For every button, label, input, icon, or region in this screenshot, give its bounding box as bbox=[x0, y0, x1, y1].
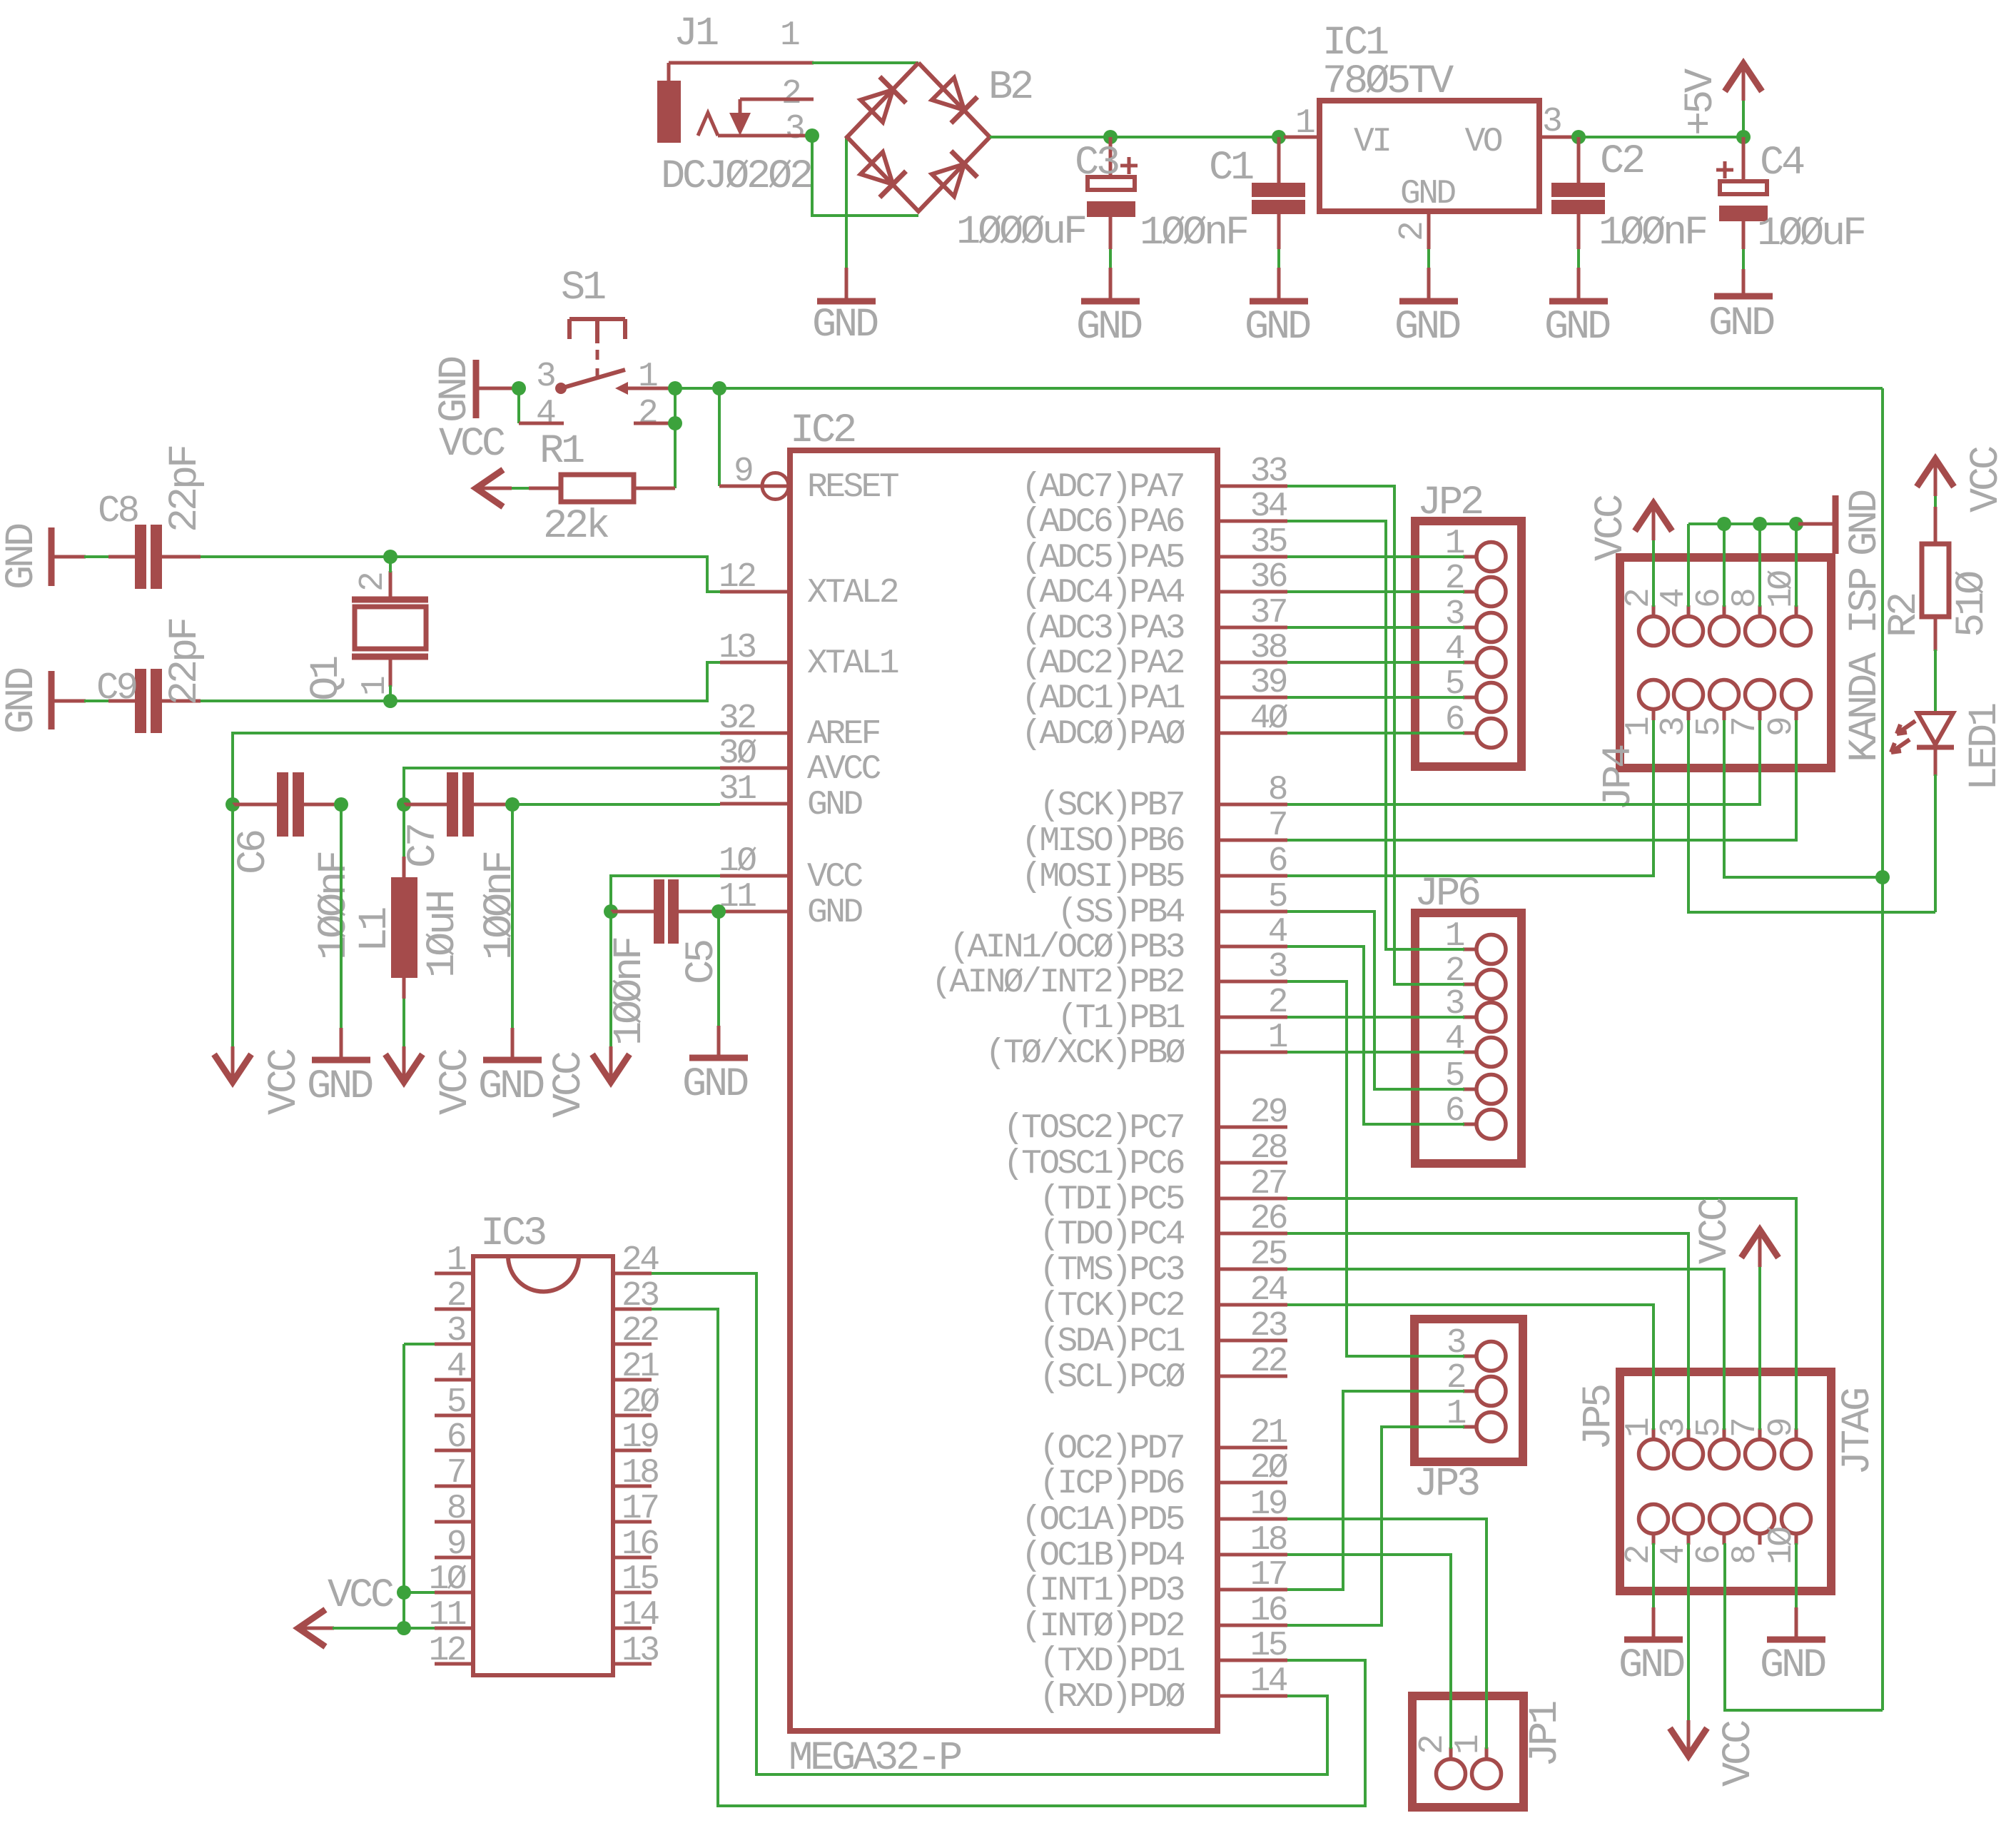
supply symbol VCC down arrow below JP5 pin4 bbox=[1670, 1728, 1707, 1756]
junction IC3 pin11 bbox=[397, 1621, 411, 1635]
svg-text:24: 24 bbox=[1250, 1271, 1287, 1310]
wire main rail bridge to C3 junction bbox=[990, 136, 1110, 138]
wire rail C2 to C4 junction bbox=[1579, 136, 1743, 138]
wire S1 pin3 to pin4 net bbox=[517, 388, 520, 423]
wire IC2 PA to JP2 pin 1 bbox=[1287, 555, 1464, 558]
svg-text:VCC: VCC bbox=[1693, 1198, 1738, 1264]
JP4 pin 1 red stub bbox=[1652, 709, 1656, 720]
IC2 pin 39 (ADC1)PA1 lead bbox=[1217, 696, 1287, 700]
JP5 pin 1 red stub bbox=[1652, 1428, 1656, 1440]
JP5 pin 8 red stub bbox=[1758, 1533, 1762, 1545]
JP2 pin 5 circle bbox=[1476, 683, 1506, 712]
JP5 pin 7 red stub bbox=[1758, 1428, 1762, 1440]
wire TCK PC2 to JP5 pin1 bbox=[1287, 1305, 1653, 1430]
IC2 pin 21 (OC2)PD7 lead bbox=[1217, 1446, 1287, 1450]
IC3 pin 4 lead bbox=[435, 1378, 473, 1382]
wire R1 left net segment bbox=[509, 487, 529, 490]
svg-text:(AINØ/INT2)PB2: (AINØ/INT2)PB2 bbox=[931, 964, 1184, 1002]
JP3 pin 3 red lead bbox=[1463, 1355, 1476, 1358]
svg-text:38: 38 bbox=[1250, 629, 1287, 667]
svg-text:3: 3 bbox=[1268, 948, 1287, 986]
svg-text:8: 8 bbox=[447, 1490, 465, 1528]
svg-text:C4: C4 bbox=[1760, 141, 1804, 186]
svg-text:22k: 22k bbox=[543, 504, 609, 550]
junction C5 right at IC2 pin11 bbox=[711, 904, 726, 919]
svg-text:1: 1 bbox=[447, 1241, 466, 1280]
JP6 pin 3 circle bbox=[1476, 1003, 1506, 1032]
JP4 pin 7 circle bbox=[1746, 680, 1775, 709]
JP5 pin 4 red stub bbox=[1687, 1533, 1691, 1545]
svg-text:JP2: JP2 bbox=[1417, 480, 1482, 526]
svg-text:3Ø: 3Ø bbox=[719, 734, 756, 773]
IC3 pin 21 lead bbox=[613, 1378, 652, 1382]
wire VCC net pin10 to C5 bbox=[611, 876, 720, 911]
svg-text:(MISO)PB6: (MISO)PB6 bbox=[1021, 822, 1184, 861]
JP5 pin 10 circle bbox=[1782, 1505, 1811, 1534]
svg-text:VCC: VCC bbox=[807, 858, 862, 897]
ground symbol below IC1 bbox=[1427, 268, 1431, 299]
svg-text:VI: VI bbox=[1354, 123, 1389, 161]
JP2 pin 3 red lead bbox=[1463, 626, 1476, 630]
wire C7 left down to L1 bbox=[402, 804, 405, 857]
JP4 pin 4 red stub bbox=[1687, 605, 1691, 617]
JP5 pin 5 red stub bbox=[1723, 1428, 1726, 1440]
ground symbol left of S1 rotated bbox=[479, 387, 521, 390]
wire IC2 PA to JP2 pin 5 bbox=[1287, 696, 1464, 699]
svg-text:1ØØnF: 1ØØnF bbox=[1140, 211, 1247, 256]
svg-text:6: 6 bbox=[1691, 1546, 1729, 1565]
JP5 pin 2 circle bbox=[1639, 1505, 1668, 1534]
svg-text:34: 34 bbox=[1250, 488, 1287, 526]
wire PD5 OC1A to JP1 pin1 bbox=[1287, 1519, 1486, 1749]
wire PB3 to JP6 pin6 bbox=[1287, 946, 1464, 1124]
JP4 pin 3 red stub bbox=[1687, 709, 1691, 720]
svg-text:GND: GND bbox=[307, 1064, 373, 1110]
supply symbol VCC arrow above R2 bbox=[1917, 459, 1954, 487]
resistor R1 22k bbox=[529, 475, 675, 502]
svg-text:1ØØnF: 1ØØnF bbox=[477, 852, 523, 960]
svg-text:2Ø: 2Ø bbox=[1250, 1449, 1288, 1488]
JP4 pin 1 circle bbox=[1639, 680, 1668, 709]
svg-text:GND: GND bbox=[1708, 301, 1774, 347]
junction S1 pin1 bbox=[668, 381, 682, 395]
svg-text:1ØuH: 1ØuH bbox=[420, 892, 466, 978]
wire VCC to R2 bbox=[1934, 496, 1937, 508]
svg-text:21: 21 bbox=[1250, 1414, 1287, 1453]
svg-text:GND: GND bbox=[1619, 1643, 1684, 1689]
S1 pin4 red lead bbox=[519, 422, 564, 425]
JP2 pin 5 red lead bbox=[1463, 696, 1476, 700]
capacitor C4 100uF polarized bbox=[1716, 137, 1768, 249]
IC2 pin 9 RESET lead bbox=[762, 485, 790, 488]
supply symbol VCC arrow above JP4 pin2 bbox=[1635, 503, 1672, 531]
svg-text:16: 16 bbox=[1250, 1592, 1287, 1630]
IC3 pin 1 lead bbox=[435, 1272, 473, 1276]
JP6 pin 1 circle bbox=[1476, 935, 1506, 964]
IC3 pin 7 lead bbox=[435, 1485, 473, 1488]
IC2 pin 38 (ADC2)PA2 lead bbox=[1217, 661, 1287, 665]
svg-text:3: 3 bbox=[447, 1312, 465, 1350]
IC3 pin 20 lead bbox=[613, 1414, 652, 1418]
svg-text:JTAG: JTAG bbox=[1835, 1389, 1881, 1475]
svg-text:(INTØ)PD2: (INTØ)PD2 bbox=[1021, 1607, 1184, 1646]
IC2 pin 16 (INT0)PD2 lead bbox=[1217, 1624, 1287, 1627]
svg-text:(ADC6)PA6: (ADC6)PA6 bbox=[1021, 503, 1184, 542]
svg-text:5: 5 bbox=[447, 1383, 465, 1422]
svg-text:VCC: VCC bbox=[328, 1573, 393, 1619]
svg-text:VCC: VCC bbox=[433, 1049, 479, 1115]
svg-text:16: 16 bbox=[622, 1525, 658, 1564]
JP2 pin 6 circle bbox=[1476, 719, 1506, 748]
supply symbol VCC down arrow bbox=[214, 1054, 251, 1082]
svg-text:IC3: IC3 bbox=[480, 1211, 545, 1257]
wire IC3 pin23 to IC2 pin15 TXD bbox=[652, 1309, 1365, 1806]
wire pin1 to pin2 net bbox=[674, 388, 677, 423]
IC2 pin 10 VCC lead bbox=[720, 874, 790, 878]
IC2 pin 6 (MOSI)PB5 lead bbox=[1217, 874, 1287, 878]
svg-text:VO: VO bbox=[1465, 123, 1502, 161]
ground symbol below C4 bbox=[1742, 269, 1746, 295]
wire PA7 to JP6 pin2 bbox=[1287, 486, 1464, 984]
svg-text:GND: GND bbox=[432, 357, 478, 423]
svg-text:51Ø: 51Ø bbox=[1950, 571, 1995, 637]
JP5 pin 3 red stub bbox=[1687, 1428, 1691, 1440]
capacitor C9 22pF bbox=[108, 669, 201, 733]
JP1 pin2 red stub bbox=[1449, 1747, 1453, 1759]
IC2 RESET inverter bubble bbox=[762, 473, 789, 500]
wire PB1 to JP6 pin3 bbox=[1287, 1016, 1464, 1019]
wire GND row from C7 to IC2 pin31 bbox=[512, 803, 720, 806]
svg-text:C9: C9 bbox=[96, 667, 136, 709]
svg-text:12: 12 bbox=[429, 1632, 465, 1670]
wire C9 to crystal junction bbox=[201, 700, 390, 702]
svg-text:(ADCØ)PAØ: (ADCØ)PAØ bbox=[1021, 715, 1185, 754]
wire C9 left ground net segment bbox=[84, 700, 108, 702]
wire JP5 pin4 to VCC bbox=[1687, 1543, 1690, 1723]
svg-text:(OC1A)PD5: (OC1A)PD5 bbox=[1021, 1501, 1184, 1540]
JP5 pin 5 circle bbox=[1710, 1440, 1739, 1469]
JP5 pin 7 circle bbox=[1746, 1440, 1775, 1469]
ground symbol below C1 bbox=[1277, 268, 1281, 299]
IC2 pin 20 (ICP)PD6 lead bbox=[1217, 1481, 1287, 1485]
JP5 pin 2 red stub bbox=[1652, 1533, 1656, 1545]
JP5 pin 3 circle bbox=[1674, 1440, 1703, 1469]
wire C5 left down to VCC bbox=[609, 911, 612, 1049]
svg-text:JP5: JP5 bbox=[1576, 1385, 1622, 1450]
svg-text:2: 2 bbox=[1268, 984, 1287, 1022]
svg-text:(TDO)PC4: (TDO)PC4 bbox=[1039, 1216, 1184, 1254]
junction at C1 bbox=[1272, 130, 1286, 144]
JP1 pin 1 circle bbox=[1472, 1759, 1501, 1789]
wire VCC to JP4 pin2 bbox=[1652, 540, 1655, 607]
svg-text:22pF: 22pF bbox=[163, 619, 208, 705]
IC2 pin 30 AVCC lead bbox=[720, 767, 790, 770]
svg-text:VCC: VCC bbox=[1964, 447, 2010, 512]
IC2 pin 32 AREF lead bbox=[720, 732, 790, 735]
wire AREF net to C6 bbox=[233, 733, 720, 804]
svg-text:18: 18 bbox=[1250, 1521, 1287, 1560]
wire JP4 pin3 to LED1 cathode bbox=[1688, 720, 1935, 912]
ground symbol below bridge bbox=[845, 268, 849, 299]
supply symbol VCC arrow left of R1 bbox=[476, 470, 503, 507]
svg-text:39: 39 bbox=[1250, 664, 1287, 702]
svg-text:(OC2)PD7: (OC2)PD7 bbox=[1039, 1430, 1183, 1468]
wire RESET vertical right side bbox=[1881, 388, 1884, 1710]
resistor R2 510 bbox=[1922, 507, 1949, 651]
svg-text:27: 27 bbox=[1250, 1165, 1286, 1203]
ground symbol below C6 bbox=[340, 1028, 343, 1058]
JP4 pin 8 circle bbox=[1746, 617, 1775, 646]
svg-text:19: 19 bbox=[622, 1418, 658, 1457]
wire J1 pin1 red lead bbox=[669, 61, 814, 65]
JP4 pin 4 circle bbox=[1674, 617, 1703, 646]
IC2 pin 2 (T1)PB1 lead bbox=[1217, 1016, 1287, 1019]
wire VCC to JP5 pin7 bbox=[1758, 1267, 1761, 1430]
svg-text:2: 2 bbox=[1414, 1736, 1452, 1754]
wire down to R1 right lead bbox=[674, 423, 677, 488]
svg-text:J1: J1 bbox=[674, 11, 718, 57]
svg-text:4: 4 bbox=[447, 1348, 466, 1386]
junction crystal pin1 bbox=[383, 694, 397, 708]
svg-text:(AIN1/OCØ)PB3: (AIN1/OCØ)PB3 bbox=[949, 929, 1184, 967]
wire C8 to crystal junction bbox=[201, 555, 390, 558]
svg-text:(ADC2)PA2: (ADC2)PA2 bbox=[1021, 645, 1184, 683]
JP1 pin1 red stub bbox=[1485, 1747, 1489, 1759]
junction IC3 pin10 bbox=[397, 1585, 411, 1600]
svg-text:9: 9 bbox=[447, 1525, 465, 1564]
svg-text:IC2: IC2 bbox=[790, 408, 855, 454]
svg-text:Q1: Q1 bbox=[304, 657, 350, 701]
JP4 pin 3 circle bbox=[1674, 680, 1703, 709]
IC2 pin 29 (TOSC2)PC7 lead bbox=[1217, 1126, 1287, 1129]
IC3 pin 11 lead bbox=[435, 1627, 473, 1630]
JP4 pin 9 circle bbox=[1782, 680, 1811, 709]
supply symbol VCC arrow left of IC3 bbox=[298, 1610, 325, 1647]
wire PA6 to JP6 pin1 bbox=[1287, 521, 1464, 949]
IC3 pin 10 lead bbox=[435, 1591, 473, 1595]
wire TDO PC4 to JP5 pin3 bbox=[1287, 1233, 1688, 1430]
svg-text:(ADC3)PA3: (ADC3)PA3 bbox=[1021, 610, 1184, 648]
svg-text:VCC: VCC bbox=[547, 1052, 592, 1118]
JP6 pin 4 red lead bbox=[1463, 1051, 1476, 1054]
svg-text:GND: GND bbox=[807, 786, 862, 824]
wire PB2 to JP3 pin3 bbox=[1287, 981, 1464, 1356]
svg-text:(TXD)PD1: (TXD)PD1 bbox=[1039, 1642, 1184, 1681]
IC1 pin3 red stub bbox=[1539, 136, 1575, 139]
junction C7 right bbox=[505, 797, 520, 812]
supply symbol VCC down arrow bbox=[592, 1054, 629, 1082]
junction C5 left bbox=[604, 904, 618, 919]
svg-text:XTAL1: XTAL1 bbox=[807, 645, 898, 683]
svg-text:23: 23 bbox=[1250, 1307, 1287, 1345]
svg-text:8: 8 bbox=[1726, 1546, 1765, 1565]
header JP6 box bbox=[1415, 913, 1521, 1163]
svg-text:14: 14 bbox=[622, 1596, 659, 1635]
junction bus pin6 bbox=[1717, 517, 1731, 531]
JP5 pin 10 red stub bbox=[1795, 1533, 1798, 1545]
svg-text:GND: GND bbox=[807, 894, 862, 932]
svg-text:6: 6 bbox=[447, 1418, 465, 1457]
svg-text:2: 2 bbox=[638, 395, 657, 433]
svg-text:1: 1 bbox=[638, 358, 657, 396]
JP5 pin 6 circle bbox=[1710, 1505, 1739, 1534]
junction C7 left bbox=[397, 797, 411, 812]
IC3 pin 5 lead bbox=[435, 1414, 473, 1418]
svg-text:(RXD)PDØ: (RXD)PDØ bbox=[1039, 1678, 1185, 1717]
svg-text:12: 12 bbox=[719, 558, 755, 597]
svg-text:1ØØuF: 1ØØuF bbox=[1757, 211, 1865, 257]
capacitor C2 100nF bbox=[1551, 137, 1605, 249]
svg-text:JP6: JP6 bbox=[1414, 872, 1479, 917]
junction at J1 pin3 bbox=[805, 128, 819, 143]
svg-text:JP4: JP4 bbox=[1596, 745, 1642, 811]
JP3 pin 2 red lead bbox=[1463, 1390, 1476, 1393]
svg-text:29: 29 bbox=[1250, 1094, 1287, 1132]
wire RESET long horizontal to right side bbox=[719, 387, 1883, 390]
wire S1 to RESET junction bbox=[675, 387, 719, 390]
IC2 pin 37 (ADC3)PA3 lead bbox=[1217, 626, 1287, 630]
wire JP4 pin6 up to ground bus bbox=[1723, 524, 1726, 607]
JP4 pin 6 circle bbox=[1710, 617, 1739, 646]
junction at C4 bbox=[1736, 130, 1751, 144]
IC2 pin 12 XTAL2 lead bbox=[720, 590, 790, 594]
svg-text:GND: GND bbox=[0, 668, 45, 734]
ground symbol below C5 bbox=[717, 1026, 721, 1056]
IC2 pin 33 (ADC7)PA7 lead bbox=[1217, 485, 1287, 488]
wire C7 right down to ground bbox=[511, 804, 514, 1028]
wire PD3 INT1 to JP3 pin2 bbox=[1287, 1391, 1464, 1590]
S1 pin1 red lead bbox=[627, 387, 675, 390]
ic IC3 body bbox=[473, 1256, 613, 1675]
wire R2 to LED1 bbox=[1934, 650, 1937, 714]
JP2 pin 1 red lead bbox=[1463, 555, 1476, 559]
JP3 pin 1 red lead bbox=[1463, 1425, 1476, 1429]
IC3 pin 18 lead bbox=[613, 1485, 652, 1488]
IC3 pin 14 lead bbox=[613, 1627, 652, 1630]
IC2 pin 24 (TCK)PC2 lead bbox=[1217, 1303, 1287, 1307]
ground symbol below C3 bbox=[1109, 268, 1113, 299]
JP4 pin 6 red stub bbox=[1723, 605, 1726, 617]
IC2 pin 36 (ADC4)PA4 lead bbox=[1217, 590, 1287, 594]
capacitor C5 100nF bbox=[611, 879, 719, 944]
JP3 pin 2 circle bbox=[1476, 1377, 1506, 1406]
supply symbol +5V arrow bbox=[1725, 64, 1762, 91]
wire JP4 ground bus bbox=[1688, 522, 1800, 525]
wire VCC vertical to pin3 bbox=[402, 1344, 405, 1628]
junction bus pin10 bbox=[1789, 517, 1803, 531]
wire JP5 pin10 to ground bbox=[1795, 1543, 1798, 1607]
svg-text:(INT1)PD3: (INT1)PD3 bbox=[1021, 1572, 1184, 1610]
wire C5 right down to ground bbox=[717, 911, 720, 1026]
IC2 pin 8 (SCK)PB7 lead bbox=[1217, 803, 1287, 807]
wire crystal row to XTAL1 jog bbox=[390, 662, 720, 701]
wire JP4 pin5 to RESET net bbox=[1724, 720, 1883, 877]
svg-text:(ADC7)PA7: (ADC7)PA7 bbox=[1021, 468, 1183, 507]
JP2 pin 4 red lead bbox=[1463, 661, 1476, 665]
IC2 pin 3 (AIN0/INT2)PB2 lead bbox=[1217, 980, 1287, 984]
wire C3 ground net segment bbox=[1109, 249, 1112, 268]
svg-text:4: 4 bbox=[1268, 913, 1287, 951]
IC2 RESET pin red lead bbox=[719, 485, 762, 488]
wire IC2 PA to JP2 pin 3 bbox=[1287, 626, 1464, 629]
svg-text:18: 18 bbox=[622, 1454, 658, 1493]
svg-text:(ICP)PD6: (ICP)PD6 bbox=[1039, 1465, 1183, 1503]
svg-text:VCC: VCC bbox=[1589, 495, 1634, 561]
svg-text:9: 9 bbox=[734, 453, 752, 491]
svg-text:(SDA)PC1: (SDA)PC1 bbox=[1039, 1323, 1184, 1361]
IC2 pin 7 (MISO)PB6 lead bbox=[1217, 839, 1287, 842]
svg-text:(SCK)PB7: (SCK)PB7 bbox=[1039, 787, 1183, 825]
JP6 pin 6 circle bbox=[1476, 1110, 1506, 1139]
JP2 pin 2 circle bbox=[1476, 577, 1506, 607]
IC2 pin 5 (SS)PB4 lead bbox=[1217, 910, 1287, 914]
svg-text:(MOSI)PB5: (MOSI)PB5 bbox=[1021, 858, 1184, 897]
svg-text:3: 3 bbox=[536, 358, 554, 396]
inductor L1 10uH bbox=[391, 857, 417, 999]
JP6 pin 6 red lead bbox=[1463, 1123, 1476, 1126]
wire crystal pin2 stub bbox=[389, 557, 392, 572]
svg-text:(SCL)PCØ: (SCL)PCØ bbox=[1039, 1358, 1185, 1397]
wire IC2 PA to JP2 pin 6 bbox=[1287, 732, 1464, 734]
header JP5 box bbox=[1620, 1372, 1831, 1591]
IC3 pin 2 lead bbox=[435, 1308, 473, 1311]
svg-text:4Ø: 4Ø bbox=[1250, 700, 1288, 738]
IC3 pin 19 lead bbox=[613, 1449, 652, 1453]
JP4 pin 10 circle bbox=[1782, 617, 1811, 646]
junction S1 pin3 bbox=[512, 381, 526, 395]
svg-text:2: 2 bbox=[1394, 223, 1432, 241]
wire junction down and right to bridge bottom bbox=[812, 136, 918, 216]
wire C1 ground net segment bbox=[1277, 249, 1280, 268]
IC2 pin 11 GND lead bbox=[720, 910, 790, 914]
IC2 pin 34 (ADC6)PA6 lead bbox=[1217, 520, 1287, 523]
svg-text:(TOSC2)PC7: (TOSC2)PC7 bbox=[1003, 1109, 1183, 1148]
JP4 pin 2 red stub bbox=[1652, 605, 1656, 617]
svg-text:R2: R2 bbox=[1882, 594, 1928, 637]
IC2 pin 17 (INT1)PD3 lead bbox=[1217, 1588, 1287, 1592]
IC2 pin 26 (TDO)PC4 lead bbox=[1217, 1232, 1287, 1236]
wire IC2 PA to JP2 pin 4 bbox=[1287, 661, 1464, 664]
IC2 pin 25 (TMS)PC3 lead bbox=[1217, 1268, 1287, 1271]
capacitor C6 100nF bbox=[233, 772, 341, 837]
wire crystal row to XTAL2 jog bbox=[390, 557, 720, 592]
header JP1 box bbox=[1412, 1696, 1524, 1807]
header JP2 box bbox=[1415, 521, 1521, 767]
svg-text:DCJØ2Ø2: DCJØ2Ø2 bbox=[661, 154, 811, 200]
svg-text:LED1: LED1 bbox=[1962, 704, 2008, 791]
svg-text:78Ø5TV: 78Ø5TV bbox=[1322, 59, 1454, 105]
wire C8 left ground net segment bbox=[84, 555, 108, 558]
svg-text:C6: C6 bbox=[231, 831, 277, 874]
svg-text:(TDI)PC5: (TDI)PC5 bbox=[1039, 1181, 1183, 1219]
svg-text:GND: GND bbox=[1544, 305, 1610, 350]
IC3 pin 13 lead bbox=[613, 1662, 652, 1666]
IC3 pin 12 lead bbox=[435, 1662, 473, 1666]
IC3 pin 23 lead bbox=[613, 1308, 652, 1311]
wire MOSI PB5 to JP4 pin1 bbox=[1287, 720, 1653, 876]
JP4 pin 2 circle bbox=[1639, 617, 1668, 646]
capacitor C1 100nF bbox=[1252, 137, 1305, 249]
IC2 pin 23 (SDA)PC1 lead bbox=[1217, 1339, 1287, 1343]
IC1 pin1 red stub bbox=[1284, 136, 1319, 139]
svg-text:7: 7 bbox=[447, 1454, 465, 1493]
IC2 pin 19 (OC1A)PD5 lead bbox=[1217, 1518, 1287, 1521]
header JP3 box bbox=[1414, 1319, 1523, 1462]
svg-text:GND: GND bbox=[478, 1064, 544, 1110]
svg-text:B2: B2 bbox=[988, 65, 1032, 111]
microcontroller IC2 MEGA32-P body bbox=[790, 450, 1217, 1731]
svg-text:13: 13 bbox=[622, 1632, 658, 1670]
